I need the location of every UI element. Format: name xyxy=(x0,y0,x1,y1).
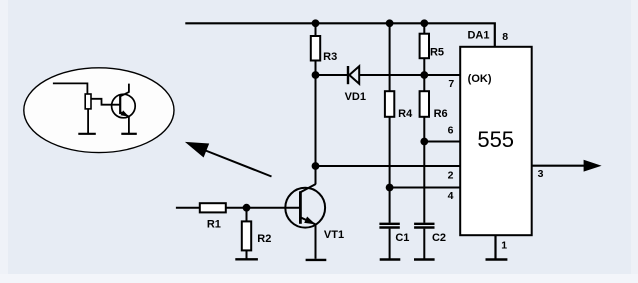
wire: C1 bottom plate to ground xyxy=(389,229,391,259)
capacitor C2 xyxy=(414,224,446,244)
node: rail / R5 junction xyxy=(420,19,428,27)
svg-text:8: 8 xyxy=(502,31,508,43)
resistor R3 xyxy=(311,36,320,61)
node: R4 column / pin4 line junction xyxy=(386,184,394,192)
node: VD1 line / R5-R6 junction xyxy=(420,71,428,79)
ground: under R2 xyxy=(235,258,258,260)
svg-text:R2: R2 xyxy=(257,233,271,245)
wire: inset tap from resistor to transistor base xyxy=(91,99,120,105)
arrow: pin 3 output arrowhead xyxy=(584,160,602,172)
capacitor C1 xyxy=(379,224,409,244)
resistor R6 xyxy=(420,91,429,117)
ground: under VT1 emitter xyxy=(306,259,327,261)
wire: inset top rail bending down into resistor xyxy=(53,83,88,94)
node: R1 / R2 / base junction xyxy=(243,204,251,212)
svg-text:C2: C2 xyxy=(432,232,446,244)
transistor VT1 xyxy=(285,184,344,241)
wire: junction down to R2 xyxy=(246,208,248,222)
wire: R3 column from rail through pin2 node down to VT1 collector xyxy=(315,23,317,36)
node: pin2 line / collector junction xyxy=(312,162,320,170)
diode VD1 xyxy=(345,66,366,103)
svg-text:R4: R4 xyxy=(398,108,413,120)
wire: pin 4 line from R4 column to chip xyxy=(390,187,460,189)
ground: under C2 xyxy=(414,258,435,260)
svg-text:R1: R1 xyxy=(207,219,221,231)
IC DA1 (555 timer) body xyxy=(460,47,532,235)
svg-text:2: 2 xyxy=(448,169,454,181)
wire: R5 bottom to R6 top xyxy=(423,58,425,91)
svg-text:VT1: VT1 xyxy=(324,229,344,241)
wire: R6 bottom to C2 top plate xyxy=(423,117,425,223)
resistor R5 xyxy=(420,34,429,59)
wire: base input wire from left edge xyxy=(176,207,200,209)
wire: pin 3 output line xyxy=(532,165,585,167)
ground: inset under emitter xyxy=(121,133,137,135)
wire: pin 2 line from collector node to chip xyxy=(316,165,460,167)
resistor R1 xyxy=(200,203,226,212)
svg-text:R5: R5 xyxy=(430,47,444,59)
node: R6 / pin6 line junction xyxy=(420,138,428,146)
wire: discharge line (pin 7) from R3 column to chip xyxy=(316,74,460,76)
node: rail / R4 junction xyxy=(386,19,394,27)
svg-text:DA1: DA1 xyxy=(467,30,489,42)
ground: under C1 xyxy=(380,258,401,260)
ground: inset under resistor xyxy=(78,133,96,135)
transistor (inset) xyxy=(112,84,136,118)
wire: R4 bottom to C1 top plate xyxy=(389,117,391,223)
node: rail / R3 junction xyxy=(312,19,320,27)
wire: R3 bottom to collector diagonal xyxy=(315,61,317,185)
wire: R5 top lead from rail xyxy=(423,23,425,34)
svg-text:6: 6 xyxy=(448,124,454,136)
svg-text:VD1: VD1 xyxy=(345,91,366,103)
callout arrow pointing to inset ellipse xyxy=(185,142,272,177)
svg-text:C1: C1 xyxy=(395,232,409,244)
svg-text:R6: R6 xyxy=(434,108,448,120)
wire: R1 to VT1 base xyxy=(226,207,301,209)
wire: pin 1 to ground xyxy=(494,235,496,259)
wire: inset emitter to ground xyxy=(128,117,130,133)
svg-text:3: 3 xyxy=(538,168,544,180)
wire: pin 6 line to chip xyxy=(424,141,460,143)
node: R3 / VD1 line junction xyxy=(312,71,320,79)
wire: VT1 emitter to ground xyxy=(315,224,317,258)
wire: top supply rail with bend down to pin 8 xyxy=(185,23,495,47)
svg-text:R3: R3 xyxy=(323,51,337,63)
svg-text:(OK): (OK) xyxy=(468,73,492,85)
inset ellipse (detail bubble) xyxy=(24,68,174,153)
svg-text:555: 555 xyxy=(477,127,514,152)
wire: R2 bottom to ground xyxy=(246,250,248,258)
wire: inset resistor bottom to ground xyxy=(87,109,89,133)
svg-text:1: 1 xyxy=(501,239,507,251)
svg-text:4: 4 xyxy=(448,190,454,202)
resistor (inset, base divider) xyxy=(85,94,91,109)
ground: under pin 1 xyxy=(486,258,508,260)
resistor R2 xyxy=(242,221,251,250)
wire: R4 column from rail down to C1 xyxy=(389,23,391,91)
resistor R4 xyxy=(385,91,394,117)
wire: C2 bottom plate to ground xyxy=(423,229,425,259)
svg-text:7: 7 xyxy=(448,78,454,90)
